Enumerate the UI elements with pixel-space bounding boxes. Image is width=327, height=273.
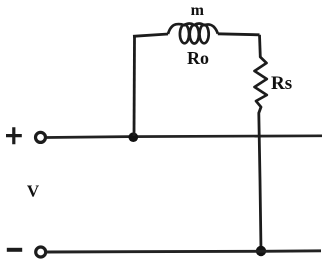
wire top rail <box>47 136 323 138</box>
wire right vertical upper <box>258 35 262 57</box>
svg-text:V: V <box>27 182 40 201</box>
svg-text:m: m <box>191 2 205 19</box>
wire bottom rail <box>47 251 322 252</box>
wire loop top right segment <box>218 34 260 35</box>
node junction dot left <box>129 132 139 142</box>
positive terminal circle <box>36 132 46 142</box>
resistor Rs <box>255 57 267 107</box>
plus terminal sign <box>6 127 22 144</box>
minus terminal sign <box>7 248 22 252</box>
wire right vertical lower <box>259 107 261 251</box>
svg-text:Ro: Ro <box>187 48 209 68</box>
negative terminal circle <box>36 247 46 257</box>
wire left vertical of loop <box>133 37 136 137</box>
wire loop top left segment <box>133 34 168 36</box>
node junction dot bottom <box>256 246 266 256</box>
svg-text:Rs: Rs <box>271 73 292 94</box>
inductor Ro coil <box>168 24 218 44</box>
